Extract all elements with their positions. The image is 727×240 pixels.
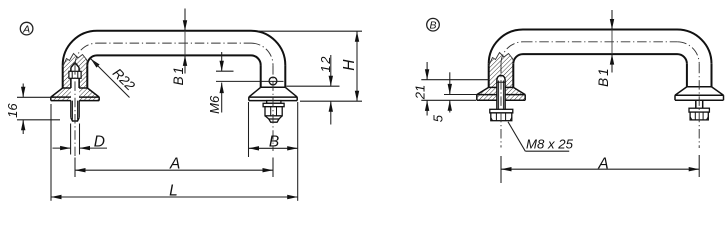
svg-text:16: 16	[5, 103, 20, 118]
svg-text:B1: B1	[171, 65, 186, 86]
svg-text:B: B	[429, 20, 436, 32]
svg-text:L: L	[169, 182, 178, 199]
svg-text:5: 5	[430, 114, 445, 122]
svg-text:21: 21	[413, 85, 428, 100]
svg-text:B: B	[269, 133, 279, 150]
svg-text:A: A	[597, 155, 608, 172]
svg-text:H: H	[341, 59, 358, 71]
svg-text:M8 x 25: M8 x 25	[526, 136, 574, 151]
svg-text:A: A	[22, 24, 30, 36]
svg-text:M6: M6	[207, 95, 222, 114]
svg-text:B1: B1	[596, 66, 611, 87]
svg-text:12: 12	[318, 55, 333, 72]
svg-text:A: A	[169, 156, 180, 173]
svg-text:D: D	[94, 133, 105, 150]
